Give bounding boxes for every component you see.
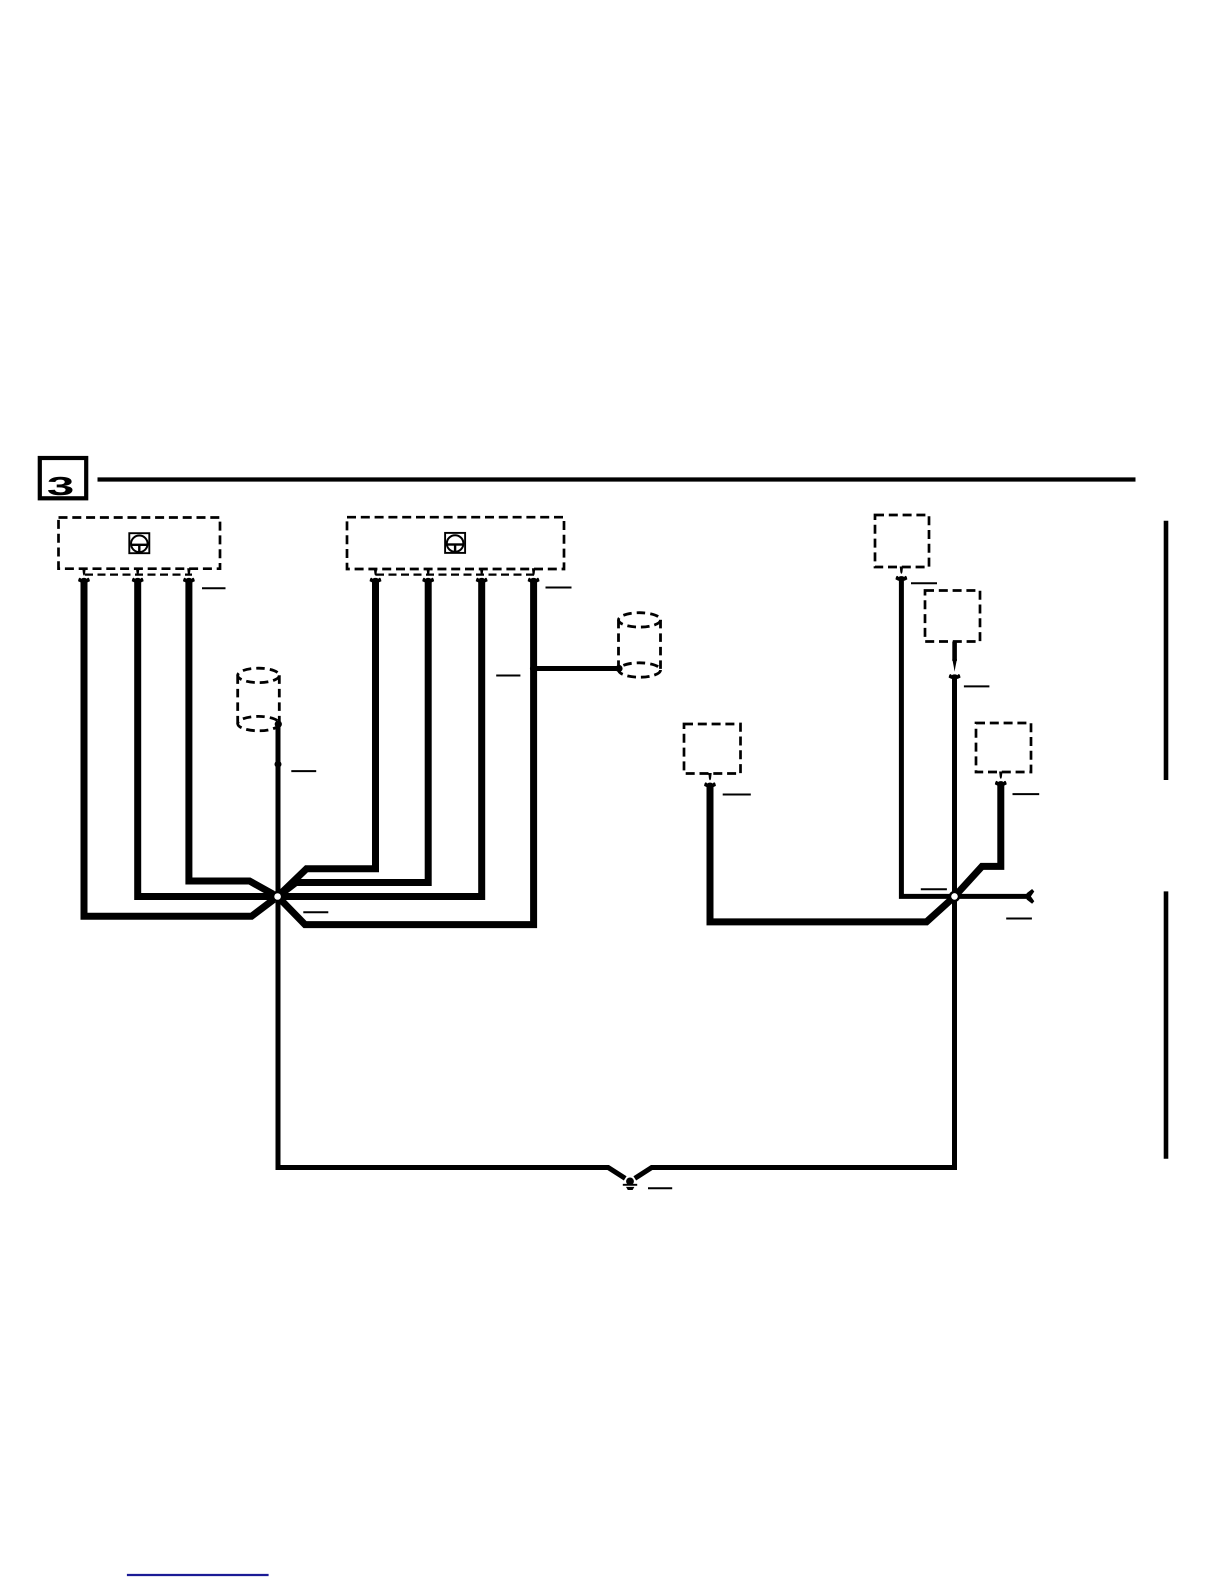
wire C1 pin3 to splice S1 <box>189 579 273 894</box>
pin of B4 <box>995 772 1007 786</box>
label stub at B2 arrow <box>964 685 990 687</box>
pin 1 of C1 <box>78 568 90 582</box>
junction dot at W1 outlet <box>275 721 282 728</box>
label stub at W2 branch <box>496 675 520 677</box>
wire B1 to splice S2 and off-page chevron <box>901 577 1028 896</box>
wire C2 pin1 to splice S1 <box>281 579 375 893</box>
steering-wheel symbol in C2 <box>445 533 465 553</box>
wire B4 to splice S2 <box>958 782 1001 893</box>
footer link rule <box>127 1574 269 1576</box>
label stub at G1 <box>648 1187 672 1189</box>
pin 2 of C2 <box>422 568 434 582</box>
pin strip of C1 <box>85 573 192 575</box>
component box B2 (dashed) <box>925 591 980 642</box>
frame label box "3" <box>40 458 86 498</box>
splice S1 (solder star junction) <box>273 892 282 901</box>
connector C1 (left dashed component box) <box>59 518 221 569</box>
wire C1 pin1 to splice S1 <box>84 579 274 916</box>
flare continuation of B2 wire <box>949 674 961 679</box>
splice dot S0 on W1 wire <box>275 761 282 768</box>
component box B4 (dashed) <box>976 723 1031 772</box>
pin 2 of C1 <box>132 568 144 582</box>
margin bar lower <box>1164 891 1169 1158</box>
label stub at B4 pin <box>1013 793 1040 795</box>
component box B1 (dashed) <box>875 515 929 567</box>
margin bar upper <box>1164 521 1169 780</box>
component box B3 (dashed) <box>684 724 741 774</box>
splice sleeve W2 (dashed cylinder) <box>619 613 661 678</box>
connector C2 (right dashed component box) <box>347 517 564 569</box>
steering-wheel symbol in C1 <box>129 533 149 553</box>
junction dot at W2 inlet <box>615 665 622 672</box>
label stub at S0 <box>291 770 316 772</box>
label stub right of S2 <box>1006 918 1032 920</box>
off-page chevron arrow <box>1027 889 1035 904</box>
splice sleeve W1 (dashed cylinder) <box>238 668 280 731</box>
wire B3 to splice S2 <box>710 784 951 922</box>
label stub at C1 <box>202 587 226 589</box>
wire C2 pin3 to splice S1 <box>283 579 482 897</box>
label stub at B1 pin <box>911 582 937 584</box>
label stub at S1 <box>303 911 328 913</box>
wire C2 pin2 to splice S1 <box>282 579 429 894</box>
pin 3 of C2 <box>476 568 488 582</box>
pin of B1 <box>896 567 908 581</box>
label stub at B3 pin <box>723 794 751 796</box>
wire W1 down through splice S1 to ground run <box>278 724 625 1178</box>
label stub left of S2 <box>921 888 947 890</box>
junction dot on pin4 wire <box>530 665 537 672</box>
arrow taper of B2 wire <box>952 659 957 672</box>
wire C2 pin4 branch to W2 <box>534 666 620 671</box>
wire C1 pin2 to splice S1 <box>138 579 273 897</box>
pin 1 of C2 <box>370 568 382 582</box>
wire C2 pin4 to splice S1 <box>281 579 533 925</box>
splice S2 (solder junction) <box>950 892 959 901</box>
pin of B3 <box>704 773 716 787</box>
wire B2 through splice S2 to ground run <box>635 676 955 1179</box>
ground G1 <box>623 1178 637 1191</box>
wire B2 down with inline arrow <box>952 642 957 662</box>
label stub at C2 <box>546 587 572 589</box>
header rule wire <box>98 477 1136 481</box>
pin strip of C2 <box>376 573 536 575</box>
pin 3 of C1 <box>183 568 195 582</box>
pin 4 of C2 <box>528 568 540 582</box>
